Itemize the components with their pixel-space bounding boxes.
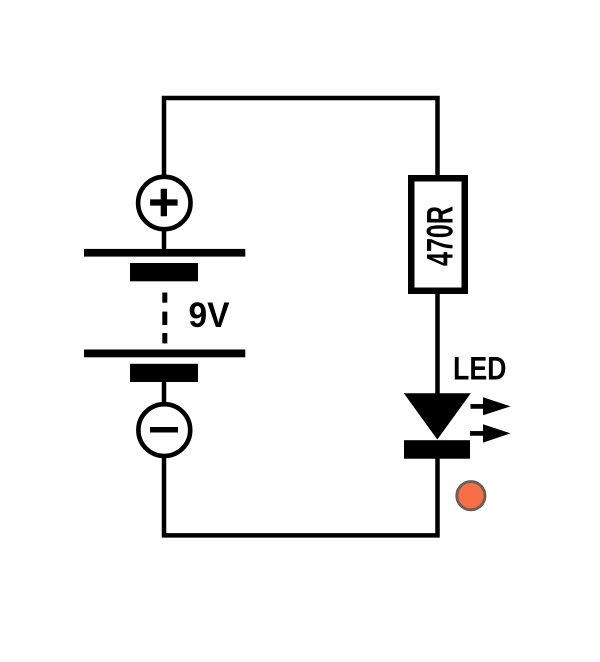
svg-text:9V: 9V — [189, 295, 230, 335]
LED cathode bar — [404, 440, 470, 459]
LED light arrow 1 head — [483, 397, 511, 415]
resistor R1 body — [411, 178, 465, 291]
LED light arrow 2 shaft — [470, 431, 484, 436]
wire: positive terminal to top plate — [162, 228, 167, 252]
dashed line (omitted cells) — [162, 293, 167, 303]
LED light arrow 2 head — [483, 424, 511, 442]
wire: bottom plate to negative terminal — [162, 381, 167, 405]
battery cell 2 short plate — [130, 364, 198, 382]
battery negative terminal circle — [138, 404, 190, 456]
svg-text:470R: 470R — [419, 206, 461, 266]
wire: bottom loop (negative terminal to LED cathode) — [164, 457, 438, 536]
battery cell 2 long plate — [84, 350, 245, 358]
LED anode triangle — [404, 393, 471, 439]
wire: top loop (battery + to resistor) — [164, 98, 438, 177]
battery cell 1 long plate — [84, 249, 245, 257]
plus sign — [150, 189, 178, 217]
svg-text:LED: LED — [453, 350, 507, 386]
LED light arrow 1 shaft — [471, 404, 485, 409]
minus sign — [150, 427, 178, 433]
indicator dot (lit LED) — [457, 482, 485, 510]
wire: resistor to LED anode — [435, 292, 440, 396]
battery positive terminal circle — [138, 177, 190, 229]
battery cell 1 short plate — [130, 263, 198, 281]
